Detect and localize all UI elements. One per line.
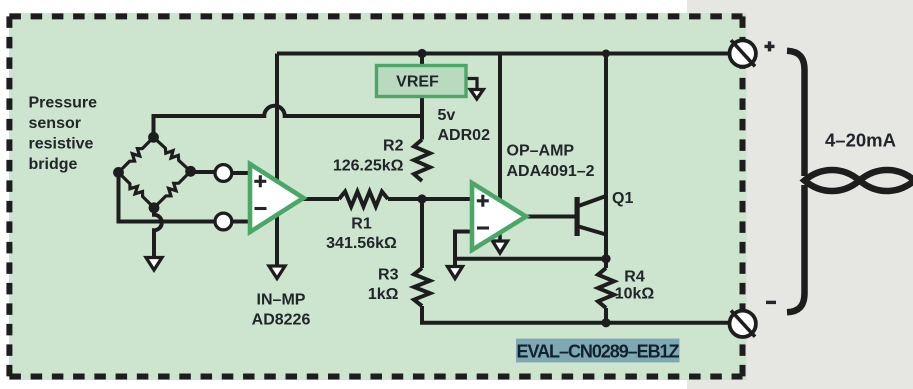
svg-text:R3: R3 (378, 266, 399, 283)
svg-text:OP–AMP: OP–AMP (507, 143, 575, 160)
svg-text:Q1: Q1 (612, 190, 633, 207)
svg-text:5v: 5v (438, 107, 456, 124)
svg-text:bridge: bridge (29, 156, 78, 173)
svg-text:R4: R4 (624, 269, 645, 286)
svg-text:1kΩ: 1kΩ (368, 286, 399, 303)
svg-text:4–20mA: 4–20mA (825, 130, 896, 151)
svg-text:126.25kΩ: 126.25kΩ (333, 158, 404, 175)
svg-text:IN–MP: IN–MP (257, 292, 306, 309)
svg-text:AD8226: AD8226 (252, 312, 311, 329)
svg-text:341.56kΩ: 341.56kΩ (326, 235, 397, 252)
svg-text:VREF: VREF (396, 74, 439, 91)
svg-text:resistive: resistive (29, 136, 94, 153)
svg-text:10kΩ: 10kΩ (615, 286, 655, 303)
svg-text:R2: R2 (383, 138, 404, 155)
svg-text:EVAL–CN0289–EB1Z: EVAL–CN0289–EB1Z (517, 342, 680, 362)
svg-text:R1: R1 (351, 215, 372, 232)
svg-text:ADA4091–2: ADA4091–2 (507, 163, 595, 180)
svg-text:Pressure: Pressure (29, 95, 98, 112)
svg-text:sensor: sensor (29, 115, 81, 132)
svg-text:ADR02: ADR02 (438, 127, 491, 144)
